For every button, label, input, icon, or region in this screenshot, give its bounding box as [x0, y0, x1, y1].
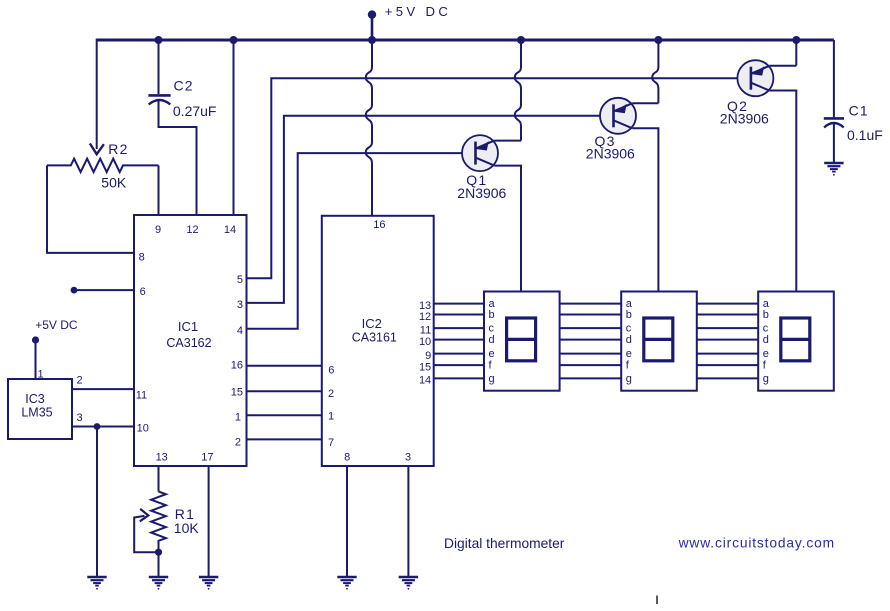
svg-text:c: c: [489, 323, 495, 335]
svg-text:C2: C2: [174, 77, 194, 93]
svg-text:IC1: IC1: [178, 319, 198, 334]
svg-text:e: e: [763, 348, 769, 360]
svg-text:16: 16: [231, 359, 243, 371]
svg-text:12: 12: [419, 311, 431, 323]
svg-text:2N3906: 2N3906: [457, 185, 506, 201]
svg-text:14: 14: [224, 224, 236, 236]
svg-text:LM35: LM35: [21, 406, 52, 420]
svg-text:16: 16: [373, 219, 385, 231]
svg-text:4: 4: [237, 325, 243, 337]
svg-text:IC2: IC2: [362, 316, 382, 331]
svg-text:10: 10: [137, 423, 149, 435]
svg-text:13: 13: [156, 452, 168, 464]
svg-text:10K: 10K: [174, 520, 200, 536]
svg-text:b: b: [763, 309, 769, 321]
svg-text:11: 11: [136, 389, 147, 401]
svg-text:0.1uF: 0.1uF: [847, 127, 883, 143]
svg-text:0.27uF: 0.27uF: [173, 103, 217, 119]
svg-text:e: e: [626, 348, 632, 360]
svg-text:15: 15: [419, 361, 431, 373]
svg-text:3: 3: [405, 452, 411, 464]
svg-text:1: 1: [38, 369, 44, 381]
svg-text:d: d: [626, 334, 632, 346]
svg-text:12: 12: [186, 224, 198, 236]
svg-text:2: 2: [77, 375, 83, 387]
svg-text:1: 1: [328, 410, 334, 422]
svg-text:3: 3: [237, 299, 243, 311]
svg-text:9: 9: [425, 350, 431, 362]
svg-text:1: 1: [235, 411, 241, 423]
svg-text:10: 10: [419, 336, 431, 348]
svg-text:C1: C1: [849, 102, 869, 118]
svg-text:14: 14: [419, 375, 431, 387]
svg-text:d: d: [763, 334, 769, 346]
svg-text:50K: 50K: [101, 175, 127, 191]
svg-text:6: 6: [328, 364, 334, 376]
svg-text:2: 2: [328, 388, 334, 400]
svg-text:b: b: [489, 309, 495, 321]
svg-text:2: 2: [235, 437, 241, 449]
svg-text:d: d: [489, 334, 495, 346]
svg-text:17: 17: [201, 452, 213, 464]
svg-text:g: g: [489, 373, 495, 385]
svg-text:5: 5: [237, 274, 243, 286]
svg-text:8: 8: [139, 251, 145, 263]
svg-text:6: 6: [140, 286, 146, 298]
svg-text:IC3: IC3: [25, 392, 45, 406]
svg-text:2N3906: 2N3906: [720, 110, 769, 126]
svg-text:2N3906: 2N3906: [586, 145, 635, 161]
svg-text:Digital thermometer: Digital thermometer: [444, 536, 565, 551]
svg-text:9: 9: [155, 224, 161, 236]
svg-text:15: 15: [231, 387, 243, 399]
svg-text:R2: R2: [108, 141, 128, 157]
svg-text:c: c: [763, 323, 769, 335]
svg-text:+5V DC: +5V DC: [35, 318, 78, 332]
svg-text:g: g: [763, 373, 769, 385]
svg-text:c: c: [626, 323, 632, 335]
svg-text:11: 11: [420, 324, 431, 336]
svg-text:CA3162: CA3162: [166, 336, 211, 350]
svg-text:e: e: [489, 348, 495, 360]
svg-text:3: 3: [77, 412, 83, 424]
svg-text:CA3161: CA3161: [352, 330, 397, 344]
svg-text:+5V DC: +5V DC: [385, 4, 451, 19]
svg-text:7: 7: [328, 437, 334, 449]
svg-text:www.circuitstoday.com: www.circuitstoday.com: [678, 536, 835, 551]
svg-text:b: b: [626, 309, 632, 321]
svg-text:g: g: [626, 373, 632, 385]
svg-text:8: 8: [344, 452, 350, 464]
